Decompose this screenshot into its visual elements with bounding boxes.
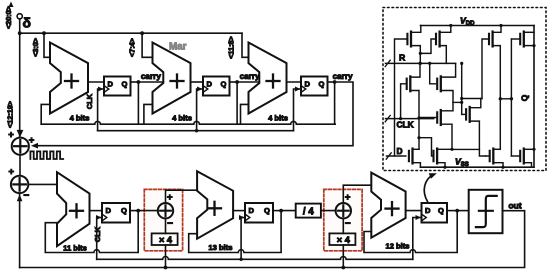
power rail VDD xyxy=(421,25,535,27)
svg-text:Q: Q xyxy=(319,80,325,89)
svg-text:carry: carry xyxy=(141,72,161,81)
svg-text:D: D xyxy=(425,206,431,215)
node line P4 drain xyxy=(453,101,462,103)
wire carry3 out to the right and down xyxy=(37,82,353,146)
wire CLK riser into DFF2 xyxy=(197,89,203,131)
wire DFF5 Q to junction xyxy=(273,210,281,212)
wire quantizer output down to feedback bus xyxy=(20,211,525,268)
svg-text:Mar: Mar xyxy=(169,42,187,53)
node line Q output xyxy=(500,98,511,100)
input line CLK with slash xyxy=(386,118,434,120)
adder A4 (11 bits) xyxy=(57,172,90,246)
wire DFF4 feedback down-left-up into adder xyxy=(45,211,138,253)
ground rail VSS xyxy=(420,166,534,168)
quantizer step symbol xyxy=(476,196,497,227)
wire DFF6 Q to junction xyxy=(447,210,457,212)
wire N8 gate xyxy=(462,113,466,115)
adder A2 (4-bit accumulator 2) xyxy=(153,43,191,114)
wire DFF3 Q output to carry node xyxy=(328,81,335,83)
node CLK riser DFF5 junction xyxy=(239,258,242,261)
inset dotted border (transistor-level DFF schematic) xyxy=(383,8,546,171)
node Q6 junction xyxy=(455,209,459,213)
svg-text:4 bits: 4 bits xyxy=(268,114,288,123)
svg-text:<7:4>: <7:4> xyxy=(128,38,137,57)
node line y=98.5 xyxy=(462,98,482,100)
svg-text:carry: carry xyxy=(333,72,353,81)
wire S1 output down to S2 xyxy=(19,155,21,176)
transistor N5 (CLK) xyxy=(436,112,438,122)
svg-text:CLK: CLK xyxy=(93,226,102,242)
svg-text:out: out xyxy=(508,201,521,211)
svg-text:CLK: CLK xyxy=(85,93,94,109)
flip-flop DFF5 xyxy=(245,203,273,223)
wire x4 block down to feedback bus xyxy=(342,245,344,268)
curved arrow from DFF6 to transistor inset xyxy=(424,175,433,202)
svg-text:/ 4: / 4 xyxy=(303,207,314,218)
svg-text:+: + xyxy=(167,192,173,203)
wire S3 output up and right into adder A5 xyxy=(166,190,198,203)
flip-flop DFF3 xyxy=(301,77,328,96)
wire P10 gate stub xyxy=(511,38,520,40)
wire P9 gate down xyxy=(482,39,489,99)
wire carry1 to adder A2 notch input xyxy=(138,81,163,83)
wire top bus horizontal xyxy=(20,32,242,34)
svg-text:× 4: × 4 xyxy=(337,235,351,245)
node x4-1 bus junction xyxy=(164,266,168,270)
highlighted block (red dashed box 1) xyxy=(144,189,182,250)
wire branch <3:0> into adder A1 xyxy=(44,33,50,57)
wire x4 block down to feedback bus xyxy=(165,245,167,268)
node line to N7 gate xyxy=(419,138,434,156)
flip-flop DFF6 xyxy=(422,203,448,223)
wire DFF6 feedback down-left-up into adder xyxy=(364,211,457,253)
node P1 drain to P2 gate xyxy=(420,39,436,53)
svg-text:<3:0>: <3:0> xyxy=(31,38,40,57)
svg-text:carry: carry xyxy=(240,72,260,81)
wire DFF3 Q feedback down xyxy=(334,82,336,124)
node carry1 junction xyxy=(137,80,141,84)
wire DFF2 Q feedback down xyxy=(236,82,238,124)
wire CLK riser into DFF3 xyxy=(294,89,302,131)
svg-text:11 bits: 11 bits xyxy=(63,244,87,253)
svg-text:<12:19>: <12:19> xyxy=(5,101,14,128)
svg-text:D: D xyxy=(304,80,310,89)
svg-text:−: − xyxy=(345,219,351,230)
summer S3 xyxy=(158,203,173,218)
svg-text:D: D xyxy=(107,80,113,89)
wire S3 to x4 block xyxy=(165,218,167,233)
wire adder A3 output to DFF3 D xyxy=(287,81,302,83)
wire DFF5 Q to /4 block xyxy=(281,210,296,212)
svg-text:<20:0>: <20:0> xyxy=(4,6,13,29)
node carry3 junction xyxy=(333,80,337,84)
wire P1 gate to left column xyxy=(395,39,408,156)
svg-text:Q: Q xyxy=(438,206,444,215)
flip-flop DFF2 xyxy=(203,77,230,96)
wire DFF5 feedback down-left-up into adder xyxy=(189,211,281,253)
wire top CLK distribution line xyxy=(98,130,294,132)
svg-text:D: D xyxy=(397,146,403,156)
transistor P2 xyxy=(435,34,437,44)
wire S2 output to adder A4 xyxy=(28,183,57,185)
wire N11 gate xyxy=(486,155,490,157)
svg-text:× 4: × 4 xyxy=(159,235,173,245)
svg-text:Q: Q xyxy=(520,94,530,101)
transistor N11 xyxy=(489,151,491,161)
svg-text:<11:8>: <11:8> xyxy=(227,36,236,58)
wire /4 block to summer S4 xyxy=(321,210,336,212)
adder A1 (4-bit accumulator 1) xyxy=(50,43,88,114)
node Q4 junction xyxy=(136,209,140,213)
svg-text:D: D xyxy=(105,206,111,215)
wire N5 gate stub xyxy=(419,117,437,119)
wire bottom CLK distribution line with hops over x4 drops xyxy=(97,257,413,260)
svg-text:−: − xyxy=(167,219,173,230)
wire CLK riser into DFF6 xyxy=(413,218,422,260)
wire N12 gate up to Q node xyxy=(511,155,520,157)
wire into DFF4 D xyxy=(90,210,103,212)
adder A6 (12 bits) xyxy=(371,173,405,238)
wire top feedback line with hops over clock risers xyxy=(41,121,335,124)
input line D with slash xyxy=(387,155,406,157)
wire feedback bus riser into S2 bottom xyxy=(19,195,21,268)
multiplier x4 block 2 xyxy=(329,233,355,245)
wire DFF4 Q to summer S3 xyxy=(138,210,158,212)
transistor N8 xyxy=(465,109,467,119)
svg-text:4 bits: 4 bits xyxy=(172,114,192,123)
wire P3 gate to CLK line xyxy=(401,84,407,119)
transistor N12 xyxy=(519,151,521,161)
input line R with slash xyxy=(386,62,456,64)
svg-text:13 bits: 13 bits xyxy=(208,243,232,252)
svg-text:4 bits: 4 bits xyxy=(70,114,90,123)
node x4-2 bus junction xyxy=(341,266,345,270)
node: junction top bus xyxy=(18,31,22,35)
summer S1 (adds dither / carry input) xyxy=(12,138,29,155)
wire carry2 to adder A3 notch input xyxy=(237,81,259,83)
svg-text:CLK: CLK xyxy=(397,120,414,130)
highlighted block (red dashed box 2) xyxy=(324,189,362,250)
transistor P4 xyxy=(436,79,438,89)
adder A3 (4-bit accumulator 3) xyxy=(249,43,287,114)
wire feedback up into adder A1 lower input xyxy=(41,104,50,124)
wire P4 gate to R line xyxy=(430,63,438,83)
wire adder A2 output to DFF2 D xyxy=(191,81,204,83)
right supply column xyxy=(533,26,535,168)
adder A5 (13 bits) xyxy=(197,171,233,239)
svg-text:D: D xyxy=(248,206,254,215)
wire S4 to x4 block xyxy=(342,218,344,233)
svg-text:δ: δ xyxy=(23,15,32,31)
wire CLK riser into DFF4 xyxy=(97,218,102,260)
wire feedback up into adder A2 lower input xyxy=(144,104,153,124)
svg-text:D: D xyxy=(206,80,212,89)
summer S4 xyxy=(336,203,351,218)
flip-flop DFF4 xyxy=(102,203,130,223)
transistor P3 xyxy=(406,79,408,89)
wire branch <11:8> into adder A3 xyxy=(242,33,249,57)
node Q5 junction xyxy=(279,209,283,213)
transistor N6 (D input) xyxy=(408,151,410,161)
transistor P1 xyxy=(406,34,408,44)
svg-text:Q: Q xyxy=(122,80,128,89)
transistor P9 xyxy=(488,34,490,44)
svg-text:+: + xyxy=(29,135,35,146)
wire DFF1 Q output to carry node xyxy=(131,81,139,83)
transistor P10 xyxy=(519,34,521,44)
long vertical node column xyxy=(461,63,463,114)
node carry2 junction xyxy=(235,80,239,84)
wire DFF1 Q feedback down xyxy=(137,82,139,124)
squarewave dither symbol xyxy=(30,151,63,159)
svg-text:VSS: VSS xyxy=(455,157,469,169)
svg-text:−: − xyxy=(23,191,29,202)
input node circle (delta input) xyxy=(17,14,22,19)
wire CLK riser into DFF5 xyxy=(241,218,245,260)
wire branch <7:4> into adder A2 xyxy=(142,33,152,57)
svg-text:12 bits: 12 bits xyxy=(385,242,409,251)
wire DFF4 Q to junction xyxy=(130,210,138,212)
wire into DFF5 D xyxy=(233,210,245,212)
divider /4 block xyxy=(296,204,321,218)
wire DFF2 Q output to carry node xyxy=(230,81,238,83)
svg-text:+: + xyxy=(8,129,14,140)
svg-text:+: + xyxy=(9,166,15,177)
wire S4 output up and right into adder A6 xyxy=(343,185,371,203)
svg-text:+: + xyxy=(345,192,351,203)
wire DFF6 Q to quantizer xyxy=(457,210,469,212)
transistor N7 xyxy=(432,151,434,161)
svg-text:Q: Q xyxy=(221,80,227,89)
svg-text:Q: Q xyxy=(264,206,270,215)
wire input vertical <20:0> down to summer S1 xyxy=(19,19,21,137)
svg-text:Q: Q xyxy=(121,206,127,215)
quantizer block (1-bit slicer) xyxy=(469,190,503,233)
svg-text:R: R xyxy=(399,53,406,63)
node line N7 drain to N8 region xyxy=(452,148,479,150)
summer S2 (input minus feedback) xyxy=(11,176,28,193)
wire into DFF6 D xyxy=(406,210,422,212)
wire adder A1 output to DFF1 D xyxy=(88,81,104,83)
wire feedback up into adder A3 lower input xyxy=(241,104,249,124)
multiplier x4 block 1 xyxy=(152,233,178,245)
wire CLK riser into DFF1 xyxy=(98,89,104,131)
flip-flop DFF1 xyxy=(104,77,131,96)
